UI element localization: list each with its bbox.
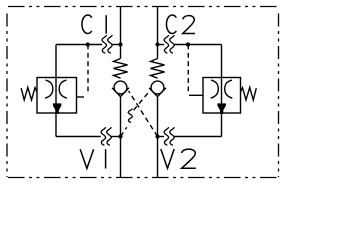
port label V 1 (80, 149, 105, 168)
check valve CV1 seat (112, 88, 129, 97)
wire: V1 port riser (120, 137, 122, 178)
wire: CV1 seat to V1 junction (120, 97, 122, 137)
relief valve RV2 envelope (203, 78, 241, 114)
port label C 1 (82, 15, 106, 34)
wire: top-right horizontal (C2 to relief RV2), broken for break symbol (158, 44, 165, 46)
break symbol on pilot V1-CV2 (128, 109, 132, 123)
enclosure boundary (phantom/chain line rectangle) (7, 7, 280, 178)
port label V 2 (161, 149, 196, 168)
wire: C1 port riser (120, 7, 122, 59)
pilot line to RV2 (dashed) (187, 45, 189, 94)
break symbol on top-left wire (102, 35, 107, 53)
boundary right edge (278, 14, 280, 178)
junction dot at C1 riser (118, 42, 122, 46)
check valve CV2 spring (151, 59, 165, 79)
wire: RV1 bottom vertical (55, 113, 57, 137)
junction dot at V1 (118, 134, 122, 138)
RV2 adjustment spring W (241, 87, 257, 100)
pilot line V2 to CV1 (dashed) (129, 91, 158, 137)
boundary bottom edge (8, 177, 280, 179)
check valve CV1 ball (114, 81, 127, 94)
wire: CV2 seat to V2 junction (157, 97, 159, 137)
wire: RV2 bottom vertical (221, 113, 223, 137)
wire: left vertical into relief RV1 (55, 45, 57, 78)
wire: bottom-left horizontal (RV1 to V1), broken for break symbol (56, 136, 101, 138)
RV1 internal flow line (55, 78, 57, 114)
break symbol on bottom-right wire (164, 127, 169, 145)
RV1 poppet arrow (filled) (53, 103, 62, 114)
port label C 2 (166, 15, 195, 34)
pilot line to RV1 (dashed) (87, 45, 89, 96)
boundary left edge (6, 14, 8, 178)
wire: V2 port riser (157, 137, 159, 178)
wire: right vertical into relief RV2 (221, 45, 223, 78)
check valve CV1 spring (114, 59, 128, 79)
check valve CV2 ball (151, 81, 164, 94)
check valve CV2 seat (149, 88, 166, 97)
junction dot at C1/pilot tee (86, 42, 90, 46)
pilot line V1 to CV2 (dashed, with break) (121, 127, 127, 136)
junction dot at V2 (155, 134, 159, 138)
wire: top-left horizontal (C1 to relief RV1), broken for break symbol (56, 44, 102, 46)
junction dot at C2 riser (155, 42, 159, 46)
RV2 orifice arcs (211, 80, 219, 98)
junction dot at C2/pilot tee (186, 42, 190, 46)
break symbol on top-right wire (164, 35, 169, 53)
relief valve RV1 envelope (37, 78, 77, 114)
wire: bottom-right horizontal (V2 to RV2), broken for break symbol (158, 136, 165, 138)
wire: C2 port riser (157, 7, 159, 59)
RV1 orifice arcs (45, 80, 53, 98)
RV1 adjustment spring W (21, 87, 37, 100)
RV2 internal flow line (221, 78, 223, 114)
break symbol on bottom-left wire (101, 127, 106, 145)
boundary top edge (8, 6, 280, 8)
RV2 poppet arrow (filled) (217, 103, 226, 114)
